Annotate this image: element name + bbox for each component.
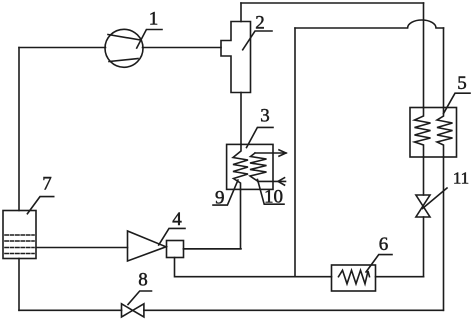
wire: right vertical A (valve 11 down to corner) [423, 217, 425, 277]
wire: evaporator 6 outlet right to corner [376, 276, 424, 278]
wire: middle vertical from hop line down to evaporator line [294, 28, 296, 277]
svg-text:7: 7 [42, 173, 52, 194]
wire: top horizontal line [241, 2, 424, 4]
svg-text:5: 5 [457, 73, 467, 94]
label 2 [243, 13, 272, 50]
wire: tank 7 bottom down [18, 259, 20, 311]
ejector 4 [128, 231, 184, 261]
label 3 [247, 106, 274, 148]
label 9 [213, 180, 238, 209]
wire: compressor outlet to separator 2 notch [143, 47, 222, 49]
evaporator 6 [332, 265, 376, 291]
arrow: exchanger 3 secondary inlet [258, 178, 286, 185]
svg-text:11: 11 [453, 168, 469, 187]
wire: bottom line right of valve 8 [144, 309, 443, 311]
wire: compressor inlet (left horizontal) [19, 47, 106, 49]
svg-text:4: 4 [172, 209, 182, 230]
svg-text:1: 1 [149, 9, 159, 30]
wire: tank 7 outlet to ejector nozzle [36, 247, 128, 249]
valve 11 (expansion valve, vertical bowtie) [416, 195, 430, 217]
exchanger 3 (internal heat exchanger) [227, 144, 273, 189]
label 11 [423, 168, 470, 208]
label 5 [444, 73, 471, 114]
wire: separator 2 bottom to exchanger 3 [240, 93, 242, 145]
wire: bottom line left of valve 8 [19, 309, 122, 311]
label 10 [258, 180, 285, 208]
label 8 [128, 269, 152, 304]
condenser 5 [410, 108, 457, 158]
wire: hop line with crossing bridge [295, 20, 444, 28]
wire: right vertical A (top line down to condenser 5) [423, 3, 425, 108]
svg-text:3: 3 [260, 106, 270, 127]
wire: ejector 4 bottom outlet down then right to evaporator 6 [175, 258, 332, 277]
compressor 1 [105, 29, 143, 67]
wire: right vertical A (condenser 5 to valve 11) [423, 157, 425, 195]
wire: separator 2 top riser [240, 3, 242, 22]
label 4 [159, 209, 185, 245]
label 6 [366, 234, 392, 272]
tank 7 (accumulator with liquid level) [3, 211, 36, 259]
label 1 [137, 9, 162, 49]
wire: ejector 4 right outlet [184, 248, 242, 250]
label 7 [27, 173, 53, 213]
svg-text:6: 6 [379, 234, 389, 255]
valve 8 (expansion valve, horizontal bowtie) [122, 304, 144, 317]
wire: left vertical down to tank 7 [18, 48, 20, 211]
wire: right vertical B (hop to exchanger 5) [443, 28, 445, 108]
svg-text:8: 8 [138, 269, 148, 290]
wire: exchanger 3 bottom down then left to ejector 4 [184, 189, 241, 248]
separator 2 [221, 22, 251, 93]
wire: right vertical B (exchanger 5 down to bottom line) [443, 157, 445, 310]
arrow: exchanger 3 secondary outlet [255, 150, 286, 156]
